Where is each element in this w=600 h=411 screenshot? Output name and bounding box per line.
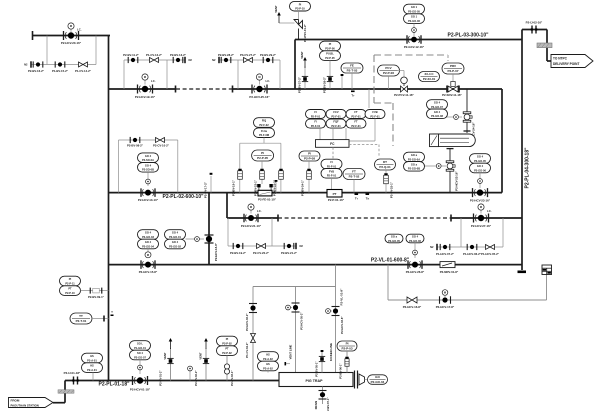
svg-text:FT: FT	[352, 170, 356, 174]
svg-text:FI: FI	[314, 120, 317, 124]
check valve P2-CV-20-2"	[257, 244, 266, 249]
svg-text:M: M	[444, 291, 446, 295]
solenoid circle	[413, 250, 418, 255]
svg-text:P2-HCV-01-18": P2-HCV-01-18"	[130, 387, 151, 391]
wire stem x=309	[308, 161, 310, 193]
instrument GO P2-GO-04	[368, 375, 388, 385]
svg-text:P2-PL-01-18": P2-PL-01-18"	[99, 382, 131, 388]
wire tap line	[81, 290, 109, 292]
instrument PI P2-P-10	[290, 1, 311, 11]
wire bypass D line	[437, 246, 503, 248]
svg-text:DELIVERY POINT: DELIVERY POINT	[553, 62, 579, 66]
wire PI stem	[346, 351, 348, 373]
instrument FVB P2-F-01 row1	[365, 110, 385, 119]
instrument FE P2-T-03	[341, 63, 363, 73]
wire bypass B risers	[237, 60, 239, 89]
svg-text:P2-FE-01-10": P2-FE-01-10"	[258, 198, 277, 202]
svg-text:P2-F-0M: P2-F-0M	[259, 133, 269, 137]
instrument FI P2-F-01 row1	[306, 110, 326, 119]
svg-text:P2-BV-01-2": P2-BV-01-2"	[159, 370, 163, 386]
svg-text:HS: HS	[266, 353, 270, 357]
wire H5 P2-VL-01 vent header y=264.6	[109, 264, 523, 266]
svg-text:P2-HCV-17-8": P2-HCV-17-8"	[436, 305, 455, 309]
svg-text:P2-BV-19-2": P2-BV-19-2"	[230, 251, 247, 255]
instrument PI P2-P-06	[320, 41, 341, 51]
wire vent stub	[279, 22, 295, 24]
valve P2-HCV-27-16"	[474, 214, 489, 223]
wire stem to HCV-23	[479, 173, 481, 188]
solenoid circle	[195, 237, 200, 242]
svg-text:M: M	[147, 253, 149, 257]
svg-text:P2-T-01: P2-T-01	[76, 319, 87, 323]
instrument GO-1 P2-GO-05	[404, 4, 425, 14]
svg-text:LC.: LC.	[257, 209, 262, 213]
svg-text:P2-HCV-05-2": P2-HCV-05-2"	[300, 312, 304, 330]
capped stub x=211	[210, 176, 212, 193]
valve P2-HCV-22-16" cross	[446, 161, 455, 171]
solenoid circle	[286, 305, 291, 310]
svg-text:T+: T+	[351, 94, 355, 98]
svg-text:M: M	[258, 75, 260, 79]
valve P2-HCV-18-8" on V6	[205, 235, 214, 243]
wire V6 x=209 H3 to H5	[208, 193, 210, 265]
wire V5 inlet drop x=65	[64, 381, 66, 403]
dashed link FC down	[332, 147, 334, 159]
svg-text:P2-GO-06: P2-GO-06	[408, 19, 420, 23]
check valve on V7	[251, 334, 256, 343]
svg-text:GO a: GO a	[411, 153, 418, 157]
svg-text:FIQ: FIQ	[262, 119, 266, 123]
svg-text:SO 4: SO 4	[137, 351, 143, 355]
check valve P2-HCV-16-8"	[407, 297, 417, 303]
svg-text:N2: N2	[24, 63, 28, 67]
svg-text:P2-GO-01: P2-GO-01	[169, 235, 181, 239]
svg-text:P2-IJ-01-18": P2-IJ-01-18"	[64, 371, 81, 375]
solenoid circle	[478, 179, 483, 184]
motor circle	[442, 290, 448, 296]
instrument TT P2-T-01	[70, 313, 92, 324]
svg-text:P2-HCV-26-8": P2-HCV-26-8"	[406, 270, 425, 274]
instrument FIQ P2-F-02	[254, 118, 275, 128]
svg-text:FI: FI	[330, 160, 333, 164]
svg-text:P2-F-01: P2-F-01	[327, 174, 337, 178]
svg-text:GO 4: GO 4	[172, 231, 179, 235]
svg-text:PRV: PRV	[450, 64, 456, 68]
svg-text:VENT: VENT	[274, 5, 278, 13]
wire PRV stem	[452, 74, 454, 84]
instrument SO-L GO stack	[130, 341, 151, 351]
svg-text:P2-BV-05-1": P2-BV-05-1"	[315, 361, 319, 377]
svg-text:P2-P-05: P2-P-05	[257, 156, 268, 160]
wire link to solenoid	[425, 165, 446, 167]
valve P2-HCV-17-8"	[440, 296, 451, 304]
diaphragm actuator circle	[401, 77, 408, 84]
svg-text:PT: PT	[333, 192, 337, 196]
valve P2-BV-29-2"	[263, 57, 273, 63]
wire bypass D risers	[460, 218, 462, 247]
dashed boundary step	[374, 102, 393, 104]
instrument GO-a P2-GO-0A	[404, 152, 425, 162]
wire stem to HCV-26	[414, 243, 416, 258]
valve P2-HCV-21-10"	[244, 214, 258, 223]
thermowell tick	[103, 316, 105, 322]
valve P2-HCV-13-10" on H3	[141, 188, 155, 197]
instrument PT P2-P-10	[60, 286, 81, 296]
svg-text:P2-BV-29-2": P2-BV-29-2"	[260, 53, 277, 57]
blind flange cap bottom of V4	[518, 271, 527, 274]
svg-text:P2-BV-17-2": P2-BV-17-2"	[204, 181, 208, 198]
vent arrow	[277, 12, 281, 23]
svg-text:P2-23-01: P2-23-01	[423, 77, 436, 81]
svg-text:P2-BV-08-2": P2-BV-08-2"	[127, 144, 144, 148]
insulating joint P2-IJ-02-16"	[531, 26, 538, 34]
svg-text:M: M	[144, 75, 146, 79]
svg-text:FI.4a: FI.4a	[261, 129, 267, 133]
instrument FT P2-T-02	[343, 169, 365, 180]
svg-text:P2-PCV-11-16": P2-PCV-11-16"	[394, 93, 414, 97]
svg-text:T+: T+	[355, 196, 359, 200]
relief valve P2-PSV-01	[294, 11, 303, 40]
svg-text:P2-GO-0B: P2-GO-0B	[408, 167, 420, 171]
check valve P1-CV-12-2"	[150, 58, 159, 63]
valve P1-HCV-06-2"	[467, 244, 477, 250]
svg-text:FE: FE	[350, 64, 354, 68]
thermowell mark	[111, 315, 114, 317]
closure flanges	[354, 371, 356, 389]
svg-text:FT: FT	[354, 120, 358, 124]
DP tap squares	[257, 184, 260, 187]
svg-text:P2-BV-25-1": P2-BV-25-1"	[390, 181, 394, 198]
wire PCV stem to line	[388, 76, 390, 89]
svg-text:GO 4: GO 4	[145, 231, 152, 235]
svg-text:P2-BV-18-1": P2-BV-18-1"	[232, 179, 236, 196]
svg-text:PIG TRAP: PIG TRAP	[306, 379, 324, 383]
solenoid circle kicker	[326, 309, 331, 314]
wire H10 collection header	[253, 286, 336, 288]
valve on V8 vent	[292, 303, 300, 312]
svg-text:P2-F-01: P2-F-01	[311, 124, 321, 128]
wire V9 kicker line	[335, 265, 337, 373]
dashed stub to PRV	[447, 55, 449, 61]
wire heater inlet from H2	[466, 89, 468, 112]
wire loop left riser	[118, 140, 120, 193]
svg-text:P2-CV-20-2": P2-CV-20-2"	[253, 251, 270, 255]
svg-text:VENT: VENT	[163, 352, 167, 360]
solenoid circle	[138, 365, 143, 370]
svg-text:P2-P-07: P2-P-07	[447, 69, 458, 73]
svg-text:GO 4: GO 4	[145, 154, 152, 158]
svg-text:SO L: SO L	[137, 342, 143, 346]
coupling on PI stem	[345, 357, 349, 367]
spec break tick H8 left	[277, 215, 279, 222]
wire V1 left main riser x=108.5	[108, 36, 110, 381]
coupling mid riser	[260, 169, 265, 180]
svg-text:P2-GO-06: P2-GO-06	[409, 239, 421, 243]
instrument GO-a P2-GO-05 pair	[385, 234, 403, 243]
wire FT stem	[353, 180, 355, 193]
check valve P2-CV-10-2"	[156, 138, 165, 143]
svg-text:LC.: LC.	[151, 79, 156, 83]
motor circle HCV-15	[145, 252, 151, 258]
svg-text:GO 4: GO 4	[145, 240, 152, 244]
svg-text:GO 4: GO 4	[477, 164, 484, 168]
svg-text:P2-GO-05: P2-GO-05	[388, 239, 400, 243]
drain valve below vessel	[322, 387, 324, 405]
thermowell stub T	[275, 182, 277, 193]
instrument FI P2-F-01 mid	[321, 159, 342, 169]
coupling on tap	[90, 288, 102, 294]
instrument FI P2-F-01 row2	[306, 119, 326, 128]
check valve P1-CV-14-2"	[79, 62, 88, 67]
svg-text:P2-HCV-03-8": P2-HCV-03-8"	[340, 316, 344, 334]
banner FROM PAGUTHAN STATION	[9, 398, 54, 408]
wire link to HCV-18	[186, 238, 205, 240]
insulating joint P2-IJ-01-18"	[72, 377, 79, 385]
svg-text:P1-HCV-06-2": P1-HCV-06-2"	[463, 252, 482, 256]
check valve P2-NRV-01-8" box	[440, 262, 455, 268]
N2 cap bypass C	[296, 243, 303, 249]
svg-text:P2-F-02: P2-F-02	[259, 123, 269, 127]
svg-text:PT: PT	[225, 347, 229, 351]
svg-text:FQF: FQF	[333, 120, 339, 124]
flange under heater	[449, 149, 451, 151]
svg-text:LC.: LC.	[266, 79, 271, 83]
valve P2-BV-21-2"	[284, 243, 294, 249]
vent riser 2	[205, 348, 207, 381]
svg-text:PI: PI	[308, 152, 311, 156]
instrument FQF P2-F-01 row2	[326, 119, 346, 128]
valve P2-HCV-26-8"	[408, 260, 422, 269]
svg-text:FVB: FVB	[372, 110, 377, 114]
svg-text:P2-P-05: P2-P-05	[325, 56, 335, 60]
hatched marker near delivery	[537, 43, 552, 48]
svg-text:P2-VL-01-8": P2-VL-01-8"	[340, 288, 344, 306]
svg-text:P2-GCV-12-16": P2-GCV-12-16"	[404, 45, 425, 49]
svg-text:P2-GO-05: P2-GO-05	[474, 159, 486, 163]
wire H2 station inlet header y=89 solid left	[109, 88, 177, 90]
N2 cap bypass B	[212, 57, 219, 63]
wire stem FE	[351, 73, 353, 89]
svg-text:P1-HCV-05-2": P1-HCV-05-2"	[481, 252, 500, 256]
svg-text:P2-IJ-02-16": P2-IJ-02-16"	[526, 21, 543, 25]
svg-text:P2-GO-06: P2-GO-06	[474, 168, 486, 172]
valve P2-HCV-01-18"	[133, 376, 148, 385]
svg-text:P2-BV-13-2": P2-BV-13-2"	[170, 53, 187, 57]
svg-text:P2-SDV-11-16": P2-SDV-11-16"	[442, 93, 462, 97]
svg-text:P2-HCV-19-16": P2-HCV-19-16"	[135, 95, 156, 99]
coupling x=309	[307, 169, 312, 180]
flow computer FC box	[316, 140, 350, 148]
dashed boundary left	[373, 55, 375, 103]
svg-text:P2-HCV-16-8": P2-HCV-16-8"	[403, 305, 422, 309]
svg-text:P2-GO-03: P2-GO-03	[142, 235, 154, 239]
instrument 23-4C P2-23-01	[419, 72, 440, 82]
wire inverted-U top	[240, 142, 281, 144]
wire bypass A risers	[123, 60, 125, 89]
wire V8 vent line	[295, 287, 297, 373]
svg-text:P2-CV-10-2": P2-CV-10-2"	[153, 144, 170, 148]
instrument PI P2-P-02 stack	[217, 336, 238, 346]
svg-text:GO: GO	[375, 375, 380, 379]
valve P2-BV-27-2" on riser	[302, 76, 308, 81]
svg-text:P2-BV-07-1": P2-BV-07-1"	[326, 397, 330, 411]
wire H6 bottom main P2-PL-01 y=380.5	[65, 380, 279, 382]
svg-text:P2-T-02: P2-T-02	[349, 175, 360, 179]
svg-text:P2-P-06: P2-P-06	[383, 71, 394, 75]
wire lower bypass horizontal	[388, 299, 547, 301]
svg-text:P2-GO-08: P2-GO-08	[431, 114, 443, 118]
PT transmitter box	[327, 190, 342, 198]
svg-text:FI: FI	[314, 110, 317, 114]
svg-text:P2-HCV-22-16": P2-HCV-22-16"	[455, 171, 459, 191]
valve P2-BV-11-2"	[128, 57, 138, 63]
svg-text:PI: PI	[346, 342, 349, 346]
svg-text:P2-BV-22-1": P2-BV-22-1"	[254, 179, 258, 196]
svg-text:PI: PI	[226, 337, 229, 341]
wire jog down x=547	[546, 30, 548, 62]
wire stub to banner	[547, 60, 551, 62]
wire main header H1 top-left stub	[32, 35, 110, 37]
instrument HS P2-A-01 stack	[82, 353, 103, 363]
svg-text:P2-F-01: P2-F-01	[331, 114, 341, 118]
svg-text:Tn: Tn	[366, 196, 370, 200]
wire PCV link to actuator	[389, 70, 405, 72]
dashed link FC to DT	[349, 144, 379, 146]
svg-text:23-4 C: 23-4 C	[424, 72, 434, 76]
wire PI stem	[226, 355, 228, 380]
svg-text:P2-HCV-25-16": P2-HCV-25-16"	[249, 95, 270, 99]
svg-text:P2-P-10: P2-P-10	[65, 291, 75, 295]
valve P2-BV-13-2"	[173, 57, 183, 63]
wire lower bypass down	[387, 265, 389, 300]
spec break tick H2 right	[232, 86, 234, 93]
svg-text:N2: N2	[430, 245, 434, 249]
valve P2-HCV-24-16" cross	[463, 112, 472, 122]
wire lower bypass up to box	[546, 275, 548, 301]
svg-text:DT: DT	[383, 160, 387, 164]
capped stub x=342	[341, 76, 343, 89]
svg-text:P2-F-01: P2-F-01	[351, 114, 361, 118]
wire H7 from banner	[53, 402, 65, 404]
instrument FVB P2-F-01 mid	[321, 169, 342, 179]
thermowell on vent	[285, 362, 287, 365]
svg-text:N2: N2	[189, 58, 193, 62]
valve P2-HCV-20-16"	[64, 31, 79, 40]
wire stems to FC box	[319, 128, 321, 140]
svg-text:VENT: VENT	[199, 352, 203, 360]
wire stem x=330	[329, 60, 331, 89]
pig trap vessel	[279, 373, 353, 387]
thermowell T+	[351, 91, 355, 93]
svg-text:M: M	[70, 24, 72, 28]
svg-text:P2-A-01: P2-A-01	[87, 368, 97, 372]
instrument GO-4 P2-SO-0B	[138, 163, 159, 173]
flow element P2-FE-01-10"	[258, 190, 272, 196]
svg-text:P2-P-08: P2-P-08	[304, 157, 315, 161]
svg-text:P2-PSV-01-2": P2-PSV-01-2"	[303, 24, 307, 42]
valve P2-HCV-15-8"	[141, 260, 155, 269]
valve on V9 kicker	[332, 307, 340, 316]
svg-text:TT: TT	[79, 314, 83, 318]
wire stem under stack	[263, 138, 265, 144]
instrument FCV P2-F-01 row1	[326, 110, 346, 119]
spec break tick H8 right	[450, 215, 452, 222]
valve on loop top	[130, 137, 140, 143]
svg-text:N2: N2	[212, 58, 216, 62]
wire heater outlet down	[449, 148, 451, 161]
wire V3 riser x=295 to P2-PL-03	[294, 40, 296, 90]
valve P2-HCV-19-16"	[138, 85, 153, 94]
svg-text:P2-P-02: P2-P-02	[222, 341, 232, 345]
svg-text:P2-HCV-13-10": P2-HCV-13-10"	[138, 198, 159, 202]
svg-text:P2-PL-02-600-10": P2-PL-02-600-10"	[162, 194, 204, 200]
wire PI stem	[261, 161, 263, 184]
motor actuator on HCV-20	[70, 29, 72, 32]
wire stem to HCV-15	[147, 249, 149, 258]
instrument PI P2-P-11	[60, 276, 81, 286]
wire bypass C risers	[227, 218, 229, 246]
check valve P1-HCV-05-2"	[486, 245, 495, 250]
svg-text:P2-GO-0A: P2-GO-0A	[408, 157, 420, 161]
svg-text:P2-PL-04-300-18": P2-PL-04-300-18"	[525, 147, 531, 189]
svg-text:P2-P-10: P2-P-10	[295, 7, 305, 11]
vent arrow x=305	[303, 57, 307, 68]
wire loop right riser	[177, 140, 179, 193]
N2 cap	[24, 61, 31, 67]
coupling right riser	[279, 169, 284, 180]
svg-text:GO 4: GO 4	[477, 155, 484, 159]
svg-text:P2-Q-01: P2-Q-01	[379, 165, 391, 169]
wire vent riser x=305	[304, 66, 306, 89]
svg-text:DRAIN: DRAIN	[314, 401, 318, 410]
svg-text:P2-P-11: P2-P-11	[65, 281, 75, 285]
svg-text:GO 4: GO 4	[172, 240, 179, 244]
svg-text:GO a: GO a	[391, 235, 398, 239]
wire HS stem	[92, 372, 94, 380]
svg-text:P2-BV-09-1": P2-BV-09-1"	[88, 295, 105, 299]
coupling x=386	[384, 173, 389, 184]
thermowell Tn under H3	[366, 193, 370, 195]
svg-text:P2-BV-21-2": P2-BV-21-2"	[281, 251, 298, 255]
wire stem to PT box	[331, 178, 333, 190]
svg-text:P2-GO-04: P2-GO-04	[142, 244, 154, 248]
svg-text:FC: FC	[330, 142, 335, 146]
svg-text:P2-HCV-02-2": P2-HCV-02-2"	[245, 313, 249, 331]
wire actuator stem	[413, 23, 415, 36]
svg-text:P2-F-01: P2-F-01	[351, 124, 361, 128]
svg-text:PU.BL: PU.BL	[326, 52, 334, 56]
wire N2 bypass line y=64.5	[31, 64, 96, 66]
instrument PRV P2-P-07	[442, 63, 464, 74]
svg-text:P2-HCV-18-8": P2-HCV-18-8"	[214, 242, 218, 261]
instrument FT P2-F-01 row2	[346, 119, 366, 128]
svg-text:P2-BV-06-1": P2-BV-06-1"	[339, 363, 343, 379]
svg-text:P2-BV-26-2": P2-BV-26-2"	[323, 76, 327, 93]
valve P2-SDV-11-16"	[448, 86, 458, 92]
valve P2-BV-16-2"	[33, 61, 43, 67]
svg-text:FVB: FVB	[329, 169, 334, 173]
svg-text:M: M	[250, 205, 252, 209]
svg-text:P2-VL-01-600-8": P2-VL-01-600-8"	[371, 257, 410, 263]
wire stem to HCV-01	[139, 360, 141, 374]
svg-text:PCV: PCV	[385, 66, 391, 70]
svg-text:P2-GO-07: P2-GO-07	[134, 355, 146, 359]
instrument stub x=190	[189, 371, 191, 381]
svg-text:N2: N2	[300, 244, 304, 248]
wire jog up at x=522	[521, 30, 523, 40]
svg-text:GO 4: GO 4	[145, 163, 152, 167]
svg-text:P2-A-02: P2-A-02	[263, 357, 273, 361]
